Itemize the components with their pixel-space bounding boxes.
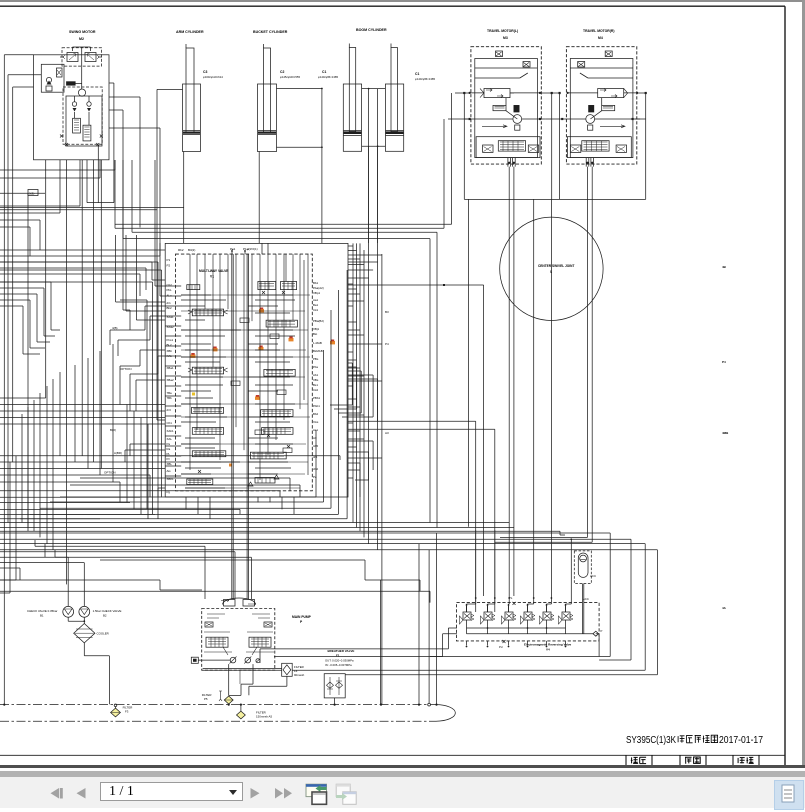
wire cylinder feeds to valve top — [157, 44, 391, 421]
svg-text:SY395C(1)3K: SY395C(1)3K — [626, 735, 676, 746]
wire upper-left nested corners — [0, 282, 60, 354]
wire mid-left verticals to valve ports — [0, 160, 165, 519]
swing motor M2 — [34, 30, 110, 160]
svg-text:Ck2: Ck2 — [313, 388, 319, 392]
svg-text:XBb: XBb — [167, 349, 173, 353]
valve V1 right port labels — [313, 281, 324, 479]
svg-text:BOOM CYLINDER: BOOM CYLINDER — [356, 28, 387, 32]
svg-text:XAs: XAs — [313, 420, 319, 424]
svg-text:4(B): 4(B) — [112, 326, 117, 330]
svg-text:C1: C1 — [322, 70, 326, 74]
main pump P — [202, 598, 312, 670]
svg-text:MULTI-WAY VALVE: MULTI-WAY VALVE — [199, 269, 229, 273]
svg-text:P: P — [601, 629, 603, 633]
V4 internal bus — [467, 596, 603, 649]
wire left maze mid horizontals — [0, 160, 165, 296]
tank line lower — [0, 720, 436, 722]
filter P5 marker — [202, 691, 222, 701]
svg-text:Rb2: Rb2 — [178, 248, 184, 252]
svg-text:Bb2: Bb2 — [313, 412, 319, 416]
svg-text:SWING MOTOR: SWING MOTOR — [69, 30, 96, 34]
svg-text:PbL: PbL — [167, 288, 173, 292]
svg-text:PBb1: PBb1 — [313, 396, 320, 400]
svg-text:XBa2: XBa2 — [167, 378, 174, 382]
travel lines through swivel — [495, 167, 592, 596]
wire boom cylinder drops — [369, 89, 378, 550]
svg-text:F3: F3 — [125, 710, 129, 714]
svg-text:90mesh: 90mesh — [294, 673, 305, 677]
check valve & cooler piping — [0, 557, 109, 704]
wire mid horizontals below cylinders — [123, 160, 437, 528]
wire valve left wrap verticals — [0, 262, 162, 519]
svg-text:Pz: Pz — [167, 457, 171, 461]
valve V1 left port labels — [167, 283, 174, 494]
svg-text:BREATHER VALVE: BREATHER VALVE — [328, 649, 355, 653]
svg-text:Bst: Bst — [313, 332, 317, 336]
center swivel joint S — [500, 217, 603, 320]
next-page button — [251, 788, 260, 799]
valve V1 spools — [187, 282, 298, 485]
pump delivery double lines P1 P2 — [232, 250, 249, 600]
svg-text:V4: V4 — [546, 648, 550, 652]
svg-text:Ba1: Ba1 — [313, 303, 319, 307]
valve V1 orange solenoid markers — [191, 308, 336, 467]
first-page button — [51, 788, 63, 799]
svg-text:PL: PL — [167, 452, 171, 456]
solenoid valve V4-6 — [481, 604, 496, 628]
bucket cylinder C2 — [253, 30, 300, 152]
svg-text:Electromagnetic Reversing Valv: Electromagnetic Reversing Valve — [524, 643, 572, 647]
svg-text:Ch1: Ch1 — [167, 421, 173, 425]
valve V1 top ports — [231, 243, 268, 254]
svg-text:PAa(A2): PAa(A2) — [313, 286, 324, 290]
svg-text:M3: M3 — [503, 36, 508, 40]
svg-text:150mesh A5: 150mesh A5 — [256, 715, 272, 719]
svg-text:A(BR): A(BR) — [114, 451, 122, 455]
wire main cross buses — [0, 421, 657, 675]
svg-text:PAs: PAs — [313, 365, 319, 369]
wire right-of-valve comb — [330, 246, 382, 497]
svg-text:φ140/φ95×1385: φ140/φ95×1385 — [415, 77, 435, 81]
svg-text:P2: P2 — [167, 264, 171, 268]
svg-text:P4: P4 — [385, 342, 389, 346]
oil cooler — [74, 624, 109, 643]
wire pump to tank drops — [419, 533, 437, 705]
svg-text:dr1: dr1 — [167, 301, 172, 305]
svg-text:XBa1: XBa1 — [167, 366, 174, 370]
travel motor (L) M3 — [469, 29, 546, 167]
filter diamond (pump suction) — [224, 696, 233, 704]
wire pilot drops into valve left ports — [110, 235, 165, 455]
svg-text:Ch2: Ch2 — [167, 283, 173, 287]
valve V1 internal web — [165, 254, 310, 488]
svg-text:B2: B2 — [103, 614, 107, 618]
svg-text:COOLER: COOLER — [97, 632, 109, 636]
svg-text:MAIN PUMP: MAIN PUMP — [292, 615, 312, 619]
svg-text:7Ba: 7Ba — [167, 391, 173, 395]
svg-text:F1: F1 — [336, 654, 340, 658]
svg-text:P4: P4 — [722, 360, 726, 364]
wire left maze lower buses — [0, 456, 340, 580]
boom cylinder C1 (right) — [385, 48, 435, 152]
wire valve right port stubs — [348, 284, 382, 478]
svg-text:B3(2): B3(2) — [188, 248, 195, 252]
svg-text:ARM CYLINDER: ARM CYLINDER — [176, 30, 204, 34]
svg-text:B1: B1 — [40, 614, 44, 618]
multi-way valve V1 outer box — [165, 243, 348, 497]
svg-text:B(O): B(O) — [110, 428, 116, 432]
svg-text:P1: P1 — [167, 258, 171, 262]
previous-view icon — [306, 784, 327, 804]
svg-text:CHECK VALVE 0.35bar: CHECK VALVE 0.35bar — [27, 609, 57, 613]
drawing frame top border — [0, 5, 785, 7]
title text — [626, 735, 763, 746]
pump suction box to tank — [229, 664, 253, 695]
svg-text:ACC: ACC — [590, 574, 596, 578]
svg-text:Pn1: Pn1 — [230, 247, 236, 251]
solenoid valve V4-1 — [460, 604, 475, 628]
svg-text:BL2: BL2 — [167, 343, 173, 347]
wire swing-to-valve vertical bundle — [87, 83, 160, 330]
pump left drive connector — [191, 657, 230, 663]
wire left maze verticals — [0, 55, 113, 705]
svg-text:4MB: 4MB — [722, 431, 729, 435]
svg-text:φ140/φ95×1385: φ140/φ95×1385 — [318, 75, 338, 79]
travel motor (R) M4 — [561, 29, 640, 167]
prev-page button — [77, 788, 86, 799]
svg-text:1-MAB: 1-MAB — [313, 341, 322, 345]
svg-text:OUT: 0.020~0.030MPa: OUT: 0.020~0.030MPa — [325, 659, 354, 663]
svg-text:V1: V1 — [210, 275, 214, 279]
svg-text:TRAVEL MOTOR(R): TRAVEL MOTOR(R) — [583, 29, 614, 33]
svg-text:OPTION: OPTION — [104, 471, 116, 475]
wire P3 B3 verticals right of valve — [353, 243, 729, 704]
svg-text:Ais: Ais — [167, 469, 172, 473]
svg-text:Bb2: Bb2 — [167, 306, 173, 310]
svg-text:7Bb: 7Bb — [167, 396, 173, 400]
tank line upper — [0, 703, 455, 721]
svg-text:XBs: XBs — [313, 378, 319, 382]
title block labels — [631, 757, 754, 764]
wire swing motor drops — [0, 55, 115, 585]
svg-text:A3: A3 — [385, 431, 389, 435]
svg-text:Ab1: Ab1 — [313, 373, 319, 377]
svg-text:1.5bar CHECK VALVE: 1.5bar CHECK VALVE — [93, 609, 122, 613]
svg-text:Bs1: Bs1 — [313, 383, 318, 387]
svg-text:PBa(B2): PBa(B2) — [313, 319, 324, 323]
svg-text:Ck1: Ck1 — [313, 308, 319, 312]
wire under-valve extra wraps — [70, 478, 300, 519]
pump drain line to F4 — [203, 669, 287, 696]
svg-text:XBL: XBL — [167, 462, 173, 466]
svg-text:BsMAB: BsMAB — [313, 349, 323, 353]
last-page button — [275, 788, 292, 799]
svg-text:BUCKET CYLINDER: BUCKET CYLINDER — [253, 30, 288, 34]
svg-text:Pns1: Pns1 — [167, 338, 174, 342]
svg-text:B3: B3 — [385, 310, 389, 314]
svg-text:Bb1: Bb1 — [313, 281, 319, 285]
svg-text:TRAVEL MOTOR(L): TRAVEL MOTOR(L) — [487, 29, 518, 33]
svg-text:XBj1: XBj1 — [313, 327, 319, 331]
svg-text:M2: M2 — [79, 37, 84, 41]
check valve B1 — [27, 606, 74, 617]
svg-text:Pa: Pa — [167, 442, 171, 446]
svg-text:Ra: Ra — [167, 447, 171, 451]
svg-text:2017-01-17: 2017-01-17 — [719, 735, 763, 746]
next-view icon (disabled) — [336, 784, 356, 804]
svg-text:dr3: dr3 — [167, 408, 172, 412]
boom cylinder C1 (left) — [318, 28, 387, 151]
svg-text:M4: M4 — [598, 36, 603, 40]
svg-text:Aa1: Aa1 — [313, 298, 319, 302]
filter 150mesh A5 — [237, 705, 273, 719]
svg-text:CENTER SWIVEL JOINT: CENTER SWIVEL JOINT — [538, 264, 574, 268]
svg-text:φ160/φ110×614: φ160/φ110×614 — [203, 75, 223, 79]
svg-text:XBp1: XBp1 — [313, 291, 320, 295]
svg-text:PBs: PBs — [313, 357, 319, 361]
svg-text:XBb1: XBb1 — [167, 477, 174, 481]
accumulator drop line — [583, 584, 584, 634]
wire pump feed horizontals lower-left — [0, 560, 430, 603]
svg-text:C1: C1 — [415, 72, 419, 76]
wire staircase to pump pilots — [35, 540, 251, 599]
title block table — [626, 755, 759, 765]
electromagnetic reversing valve V4 — [457, 603, 600, 652]
check valve B2 — [79, 606, 122, 617]
drawing frame bottom border / title table top — [0, 754, 785, 756]
svg-text:C2: C2 — [280, 70, 284, 74]
svg-text:OPTION: OPTION — [120, 367, 132, 371]
travel motors outer boxes — [463, 92, 647, 199]
svg-text:5(3): 5(3) — [29, 191, 34, 195]
wire travel motor link left — [348, 93, 484, 596]
wire long top horizontals — [0, 93, 452, 228]
drawing frame right border — [784, 6, 786, 766]
svg-text:IN: -0.005~0.007MPa: IN: -0.005~0.007MPa — [325, 663, 352, 667]
wire right loops from manifold — [260, 628, 599, 663]
svg-text:XAL: XAL — [167, 437, 173, 441]
filter F4 — [282, 663, 305, 677]
V4 inlet verticals — [467, 530, 553, 612]
wire valve bottom-right wrap loops — [20, 270, 347, 519]
svg-text:Pd: Pd — [499, 645, 503, 649]
svg-text:XAa2: XAa2 — [167, 325, 174, 329]
svg-text:ALo: ALo — [167, 294, 173, 298]
svg-text:φ145/φ100×555: φ145/φ100×555 — [280, 75, 300, 79]
svg-text:P5: P5 — [204, 697, 208, 701]
breather valve F1 — [324, 649, 354, 706]
svg-text:C3: C3 — [203, 70, 207, 74]
accumulator ACC — [574, 551, 596, 584]
filter F3 — [111, 704, 133, 717]
arm cylinder C3 — [176, 30, 223, 152]
svg-text:XAa1: XAa1 — [167, 315, 174, 319]
svg-text:PAb1: PAb1 — [313, 404, 320, 408]
svg-text:XAb1: XAb1 — [167, 429, 174, 433]
boom cylinders tie lines — [362, 88, 386, 243]
